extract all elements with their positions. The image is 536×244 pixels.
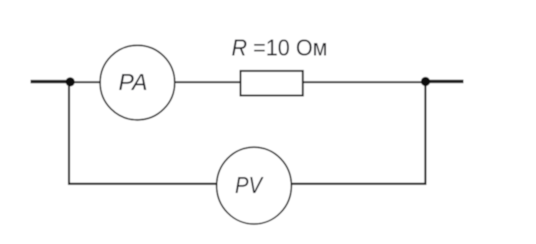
svg-text:PV: PV	[235, 172, 264, 198]
svg-text:PA: PA	[119, 69, 148, 95]
svg-text:R =10 Ом: R =10 Ом	[232, 35, 328, 61]
